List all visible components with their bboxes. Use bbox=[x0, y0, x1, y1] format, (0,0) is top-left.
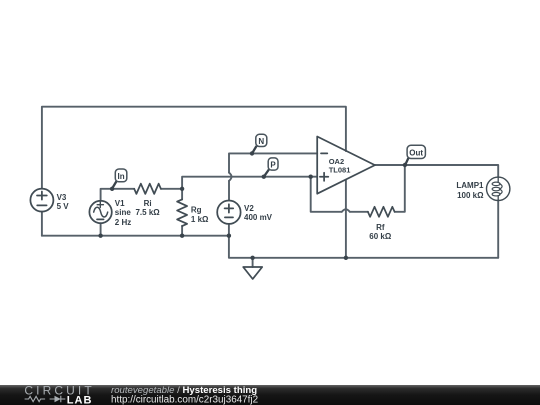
V1 plus symbol bbox=[97, 202, 103, 208]
node flag In bbox=[112, 169, 127, 188]
wire Ri right lead to Rg junction bbox=[161, 188, 182, 190]
svg-text:Rg: Rg bbox=[191, 205, 202, 214]
voltage source V3 circle bbox=[30, 189, 53, 212]
op-amp plus input symbol bbox=[320, 173, 328, 181]
wire V3 bottom lead bbox=[41, 212, 43, 236]
svg-text:60 kΩ: 60 kΩ bbox=[369, 232, 392, 241]
svg-text:In: In bbox=[118, 172, 125, 181]
junction dot Out node bbox=[403, 163, 407, 167]
svg-text:http://circuitlab.com/c2r3uj36: http://circuitlab.com/c2r3uj3647fj2 bbox=[111, 394, 258, 405]
svg-text:TL081: TL081 bbox=[329, 165, 351, 174]
node flag P bbox=[264, 158, 278, 176]
V1 minus symbol bbox=[97, 218, 104, 220]
wire top rail from V3 to op-amp V+ pin bbox=[42, 107, 346, 189]
resistor Ri bbox=[134, 184, 161, 194]
svg-text:V1: V1 bbox=[115, 199, 125, 208]
wire Rg top lead bbox=[181, 189, 183, 200]
voltage source V2 circle bbox=[217, 201, 240, 224]
svg-text:V2: V2 bbox=[244, 204, 254, 213]
wire N vertical lower part to V2 top bbox=[228, 181, 230, 201]
sine source V1 circle bbox=[89, 201, 111, 223]
V3 minus symbol bbox=[37, 204, 46, 206]
wire Rg bottom lead bbox=[181, 226, 183, 236]
svg-text:LAB: LAB bbox=[67, 394, 93, 405]
op-amp OA2 triangle bbox=[317, 137, 375, 194]
wire hop on feedback over op-amp V- lead bbox=[342, 209, 350, 212]
junction dot In attach bbox=[110, 187, 114, 191]
svg-text:Rf: Rf bbox=[376, 223, 385, 232]
svg-text:V3: V3 bbox=[57, 193, 67, 202]
V1 sine wave symbol bbox=[94, 207, 108, 217]
resistor Rg bbox=[177, 199, 187, 226]
lamp LAMP1 circle bbox=[487, 177, 510, 200]
wire lamp bottom lead bbox=[497, 200, 499, 257]
wire op-amp output to lamp top bbox=[375, 165, 498, 177]
wire V1 top lead to node In bbox=[101, 189, 135, 201]
svg-text:LAMP1: LAMP1 bbox=[456, 181, 484, 190]
svg-text:7.5 kΩ: 7.5 kΩ bbox=[135, 208, 160, 217]
wire node P from Rg junction to op-amp + input bbox=[182, 177, 317, 189]
lamp LAMP1 filament coil bbox=[497, 177, 499, 182]
V3 plus symbol bbox=[37, 192, 47, 200]
svg-text:Out: Out bbox=[409, 148, 423, 157]
svg-text:N: N bbox=[258, 137, 264, 146]
wire V2 bottom lead bbox=[228, 224, 230, 236]
junction dot V2 bottom bbox=[227, 234, 231, 238]
wire feedback hop to Rf left bbox=[350, 211, 368, 213]
svg-text:100 kΩ: 100 kΩ bbox=[457, 191, 484, 200]
junction dot Ri-Rg-P node bbox=[180, 187, 184, 191]
svg-text:P: P bbox=[270, 160, 276, 169]
wire node N from op-amp - input down to V2 plus hop over P bbox=[229, 153, 317, 172]
footer logo resistor-diode squiggle bbox=[25, 396, 66, 403]
node flag Out bbox=[405, 145, 425, 164]
V2 minus symbol bbox=[225, 216, 233, 218]
wire feedback from node P down and right to Rf bbox=[311, 177, 342, 212]
junction dot op-amp V- on bottom rail bbox=[344, 256, 348, 260]
wire V1 bottom lead bbox=[100, 223, 102, 236]
node flag N bbox=[252, 134, 266, 153]
wire hop on N vertical over P wire bbox=[229, 173, 232, 181]
svg-text:1 kΩ: 1 kΩ bbox=[191, 215, 209, 224]
svg-text:Ri: Ri bbox=[144, 199, 152, 208]
junction dot ground tap bbox=[250, 256, 254, 260]
svg-text:5 V: 5 V bbox=[57, 202, 70, 211]
op-amp minus input symbol bbox=[321, 152, 327, 154]
junction dot N attach bbox=[250, 151, 254, 155]
wire bottom rail to lamp bbox=[229, 236, 498, 258]
junction dot Rg bottom bbox=[180, 234, 184, 238]
wire op-amp V- lead bbox=[345, 180, 347, 258]
ground symbol bbox=[243, 267, 262, 279]
junction dot P attach bbox=[262, 175, 266, 179]
footer logo diode arrow bbox=[55, 396, 61, 402]
svg-text:400 mV: 400 mV bbox=[244, 213, 273, 222]
svg-text:2 Hz: 2 Hz bbox=[115, 218, 131, 227]
junction dot V1 bottom bbox=[98, 234, 102, 238]
wire ground stub bbox=[252, 258, 254, 267]
wire Rf right to output junction bbox=[395, 165, 405, 212]
resistor Rf bbox=[368, 207, 395, 217]
svg-text:sine: sine bbox=[115, 208, 132, 217]
V2 plus symbol bbox=[225, 204, 234, 212]
junction dot feedback-P node bbox=[309, 175, 313, 179]
wire bottom-left rail bbox=[42, 235, 229, 237]
